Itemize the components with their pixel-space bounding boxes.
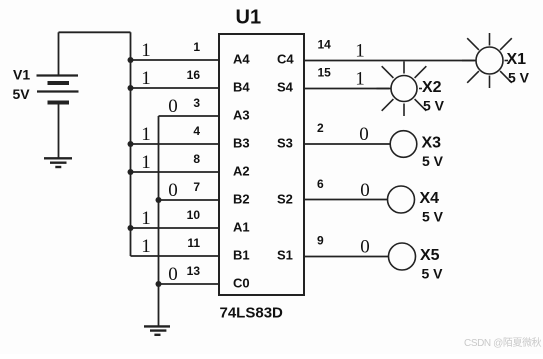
svg-text:U1: U1	[236, 7, 262, 29]
svg-text:0: 0	[359, 124, 369, 145]
wire: pin 13 (C0)	[159, 283, 220, 285]
wire: pin 10 (A1)	[131, 227, 220, 229]
svg-text:2: 2	[317, 121, 324, 135]
junction on 1-bus at pin 1	[128, 57, 134, 63]
svg-text:5 V: 5 V	[422, 153, 444, 169]
svg-text:5 V: 5 V	[422, 208, 444, 224]
svg-text:B1: B1	[233, 248, 250, 263]
wire: pin 4 (B3)	[131, 143, 220, 145]
wire: pin 14 (C4) to X1	[304, 60, 476, 62]
svg-text:3: 3	[193, 96, 200, 110]
wire: logic-1 bus vertical	[130, 32, 132, 256]
svg-text:X1: X1	[507, 51, 527, 68]
svg-text:13: 13	[187, 264, 201, 278]
junction on 0-bus at pin 7	[156, 197, 162, 203]
svg-text:8: 8	[193, 152, 200, 166]
svg-text:1: 1	[141, 208, 151, 229]
junction on 0-bus at pin 13	[156, 281, 162, 287]
svg-text:6: 6	[317, 177, 324, 191]
svg-text:10: 10	[187, 208, 201, 222]
wire: pin 6 (S2) to X4	[304, 199, 388, 201]
lamp X1 (lit)	[462, 33, 512, 88]
svg-text:S2: S2	[277, 192, 293, 207]
wire: pin 7 (B2)	[159, 199, 220, 201]
ground (below 0-bus)	[144, 326, 170, 334]
svg-text:X4: X4	[420, 190, 440, 207]
svg-text:5 V: 5 V	[423, 97, 445, 113]
svg-text:1: 1	[355, 69, 365, 90]
svg-text:14: 14	[318, 38, 332, 52]
junction on 1-bus at pin 8	[128, 169, 134, 175]
svg-text:0: 0	[168, 96, 178, 117]
svg-text:C4: C4	[277, 52, 294, 67]
svg-text:S1: S1	[277, 248, 293, 263]
wire: pin 1 (A4)	[131, 59, 220, 61]
op-amp U1 body: 74LS83D IC rectangle	[219, 34, 304, 295]
svg-text:B3: B3	[233, 136, 250, 151]
lamp X4	[388, 186, 415, 213]
wire: pin 16 (B4)	[131, 87, 220, 89]
wire: pin 15 (S4) to X2	[304, 88, 391, 90]
voltage source V1	[37, 32, 79, 158]
wire: pin 8 (A2)	[131, 171, 220, 173]
svg-text:7: 7	[193, 180, 200, 194]
svg-text:74LS83D: 74LS83D	[220, 305, 284, 322]
svg-text:X5: X5	[420, 247, 440, 264]
svg-text:C0: C0	[233, 276, 250, 291]
svg-text:1: 1	[141, 40, 151, 61]
svg-text:A1: A1	[233, 220, 250, 235]
svg-text:9: 9	[317, 234, 324, 248]
wire: V1 top to 1-bus	[59, 31, 131, 33]
svg-text:A2: A2	[233, 164, 250, 179]
svg-text:S4: S4	[277, 80, 294, 95]
svg-text:5 V: 5 V	[508, 69, 530, 85]
svg-text:1: 1	[141, 152, 151, 173]
lamp X2 (lit)	[377, 62, 427, 117]
svg-text:1: 1	[141, 236, 151, 257]
svg-text:5V: 5V	[13, 86, 31, 102]
svg-text:X2: X2	[422, 79, 442, 96]
svg-text:B2: B2	[233, 192, 250, 207]
svg-text:1: 1	[141, 124, 151, 145]
svg-text:A3: A3	[233, 108, 250, 123]
svg-text:0: 0	[168, 264, 178, 285]
svg-text:1: 1	[141, 68, 151, 89]
svg-text:CSDN @陌夏微秋: CSDN @陌夏微秋	[464, 336, 542, 349]
svg-text:X3: X3	[422, 135, 442, 152]
svg-text:A4: A4	[233, 52, 250, 67]
lamp X3	[390, 131, 417, 158]
svg-text:S3: S3	[277, 136, 293, 151]
wire: pin 11 (B1)	[131, 255, 220, 257]
wire: logic-0 bus vertical	[158, 116, 160, 326]
svg-text:0: 0	[360, 180, 370, 201]
wire: pin 9 (S1) to X5	[304, 256, 389, 258]
svg-text:15: 15	[318, 66, 332, 80]
wire: pin 3 (A3)	[159, 115, 220, 117]
junction on 1-bus at pin 10	[128, 225, 134, 231]
svg-text:0: 0	[168, 180, 178, 201]
junction on 1-bus at pin 4	[128, 141, 134, 147]
svg-text:16: 16	[187, 68, 201, 82]
svg-text:1: 1	[193, 40, 200, 54]
junction on 1-bus at pin 16	[128, 85, 134, 91]
svg-text:11: 11	[187, 236, 200, 250]
svg-text:B4: B4	[233, 80, 250, 95]
wire: pin 2 (S3) to X3	[304, 143, 390, 145]
svg-text:V1: V1	[13, 67, 30, 83]
ground (below V1)	[44, 158, 72, 167]
svg-text:4: 4	[193, 124, 200, 138]
svg-text:1: 1	[355, 41, 365, 62]
svg-text:0: 0	[360, 237, 370, 258]
svg-text:5 V: 5 V	[422, 265, 444, 281]
lamp X5	[389, 243, 416, 270]
